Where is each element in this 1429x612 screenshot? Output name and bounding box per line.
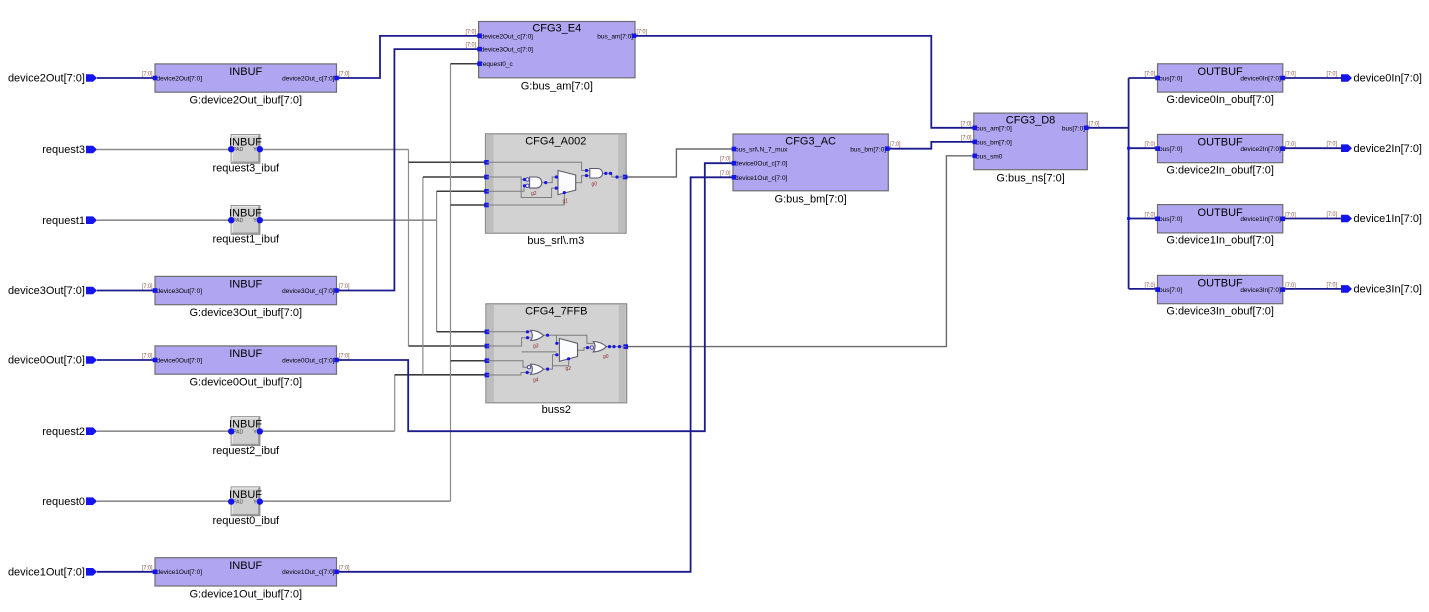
svg-text:request1_ibuf: request1_ibuf [212,234,280,246]
svg-text:device3Out_c[7:0]: device3Out_c[7:0] [282,288,335,295]
svg-text:[7:0]: [7:0] [1327,281,1338,288]
svg-text:INBUF: INBUF [229,348,262,360]
svg-text:device3In[7:0]: device3In[7:0] [1354,284,1423,296]
svg-text:device1Out_c[7:0]: device1Out_c[7:0] [282,569,335,576]
svg-text:device1In[7:0]: device1In[7:0] [1240,216,1281,223]
svg-text:[7:0]: [7:0] [1089,120,1100,127]
svg-text:device0Out_c[7:0]: device0Out_c[7:0] [282,357,335,364]
svg-text:CFG4_7FFB: CFG4_7FFB [525,305,587,317]
svg-text:[7:0]: [7:0] [1327,211,1338,218]
svg-text:[7:0]: [7:0] [1145,71,1156,78]
svg-text:G:device3Out_ibuf[7:0]: G:device3Out_ibuf[7:0] [189,307,302,319]
svg-text:G:device1Out_ibuf[7:0]: G:device1Out_ibuf[7:0] [189,588,302,600]
svg-text:buss2: buss2 [542,404,571,416]
svg-text:device2In[7:0]: device2In[7:0] [1240,146,1281,153]
svg-text:[7:0]: [7:0] [1145,282,1156,289]
svg-text:PAD: PAD [233,218,243,224]
svg-text:g2: g2 [531,191,537,197]
svg-text:[7:0]: [7:0] [1145,141,1156,148]
svg-text:[7:0]: [7:0] [142,71,153,78]
svg-text:device3In[7:0]: device3In[7:0] [1240,287,1281,294]
svg-text:[7:0]: [7:0] [142,283,153,290]
svg-text:Y: Y [253,429,257,435]
svg-text:[7:0]: [7:0] [720,156,731,163]
svg-text:request2: request2 [42,426,85,438]
svg-text:G:device0Out_ibuf[7:0]: G:device0Out_ibuf[7:0] [189,377,302,389]
svg-text:bus_srl\.m3: bus_srl\.m3 [527,235,584,247]
svg-text:[7:0]: [7:0] [466,42,477,49]
svg-text:[7:0]: [7:0] [142,353,153,360]
svg-text:device1Out[7:0]: device1Out[7:0] [157,569,203,576]
svg-text:Y: Y [253,500,257,506]
svg-text:bus_am[7:0]: bus_am[7:0] [976,125,1012,132]
svg-text:OUTBUF: OUTBUF [1198,207,1244,219]
svg-text:request3: request3 [42,144,85,156]
svg-text:G:bus_ns[7:0]: G:bus_ns[7:0] [996,173,1065,185]
svg-text:[7:0]: [7:0] [1327,141,1338,148]
svg-text:g0: g0 [603,354,609,360]
svg-text:device1In[7:0]: device1In[7:0] [1354,213,1423,225]
svg-text:device1Out_c[7:0]: device1Out_c[7:0] [735,175,788,182]
svg-text:[7:0]: [7:0] [339,71,350,78]
svg-text:bus_sm0: bus_sm0 [976,153,1003,160]
svg-text:bus_srl\.N_7_mux: bus_srl\.N_7_mux [735,147,788,154]
svg-text:device2Out_c[7:0]: device2Out_c[7:0] [481,33,534,40]
svg-text:G:bus_bm[7:0]: G:bus_bm[7:0] [775,194,847,206]
svg-text:CFG3_AC: CFG3_AC [785,136,836,148]
svg-text:[7:0]: [7:0] [1285,141,1296,148]
svg-text:G:device2In_obuf[7:0]: G:device2In_obuf[7:0] [1166,164,1274,176]
svg-text:G:bus_am[7:0]: G:bus_am[7:0] [521,80,593,92]
svg-text:request2_ibuf: request2_ibuf [212,445,280,457]
svg-text:G:device2Out_ibuf[7:0]: G:device2Out_ibuf[7:0] [189,95,302,107]
svg-text:[7:0]: [7:0] [339,283,350,290]
svg-text:OUTBUF: OUTBUF [1198,278,1244,290]
svg-text:bus[7:0]: bus[7:0] [1159,287,1182,294]
svg-text:CFG3_D8: CFG3_D8 [1006,115,1056,127]
svg-text:g2: g2 [566,366,572,372]
svg-text:CFG3_E4: CFG3_E4 [532,23,581,35]
svg-text:device0Out[7:0]: device0Out[7:0] [8,355,85,367]
svg-text:bus_bm[7:0]: bus_bm[7:0] [976,139,1012,146]
svg-text:G:device0In_obuf[7:0]: G:device0In_obuf[7:0] [1166,94,1274,106]
svg-text:[7:0]: [7:0] [1285,71,1296,78]
svg-text:[7:0]: [7:0] [466,28,477,35]
svg-text:bus[7:0]: bus[7:0] [1159,146,1182,153]
svg-text:device0Out_c[7:0]: device0Out_c[7:0] [735,161,788,168]
svg-text:G:device1In_obuf[7:0]: G:device1In_obuf[7:0] [1166,235,1274,247]
svg-text:device2Out[7:0]: device2Out[7:0] [8,73,85,85]
svg-text:[7:0]: [7:0] [1145,211,1156,218]
svg-text:request0_c: request0_c [481,61,514,68]
svg-text:Y: Y [253,147,257,153]
svg-text:device3Out[7:0]: device3Out[7:0] [157,288,203,295]
svg-text:INBUF: INBUF [229,560,262,572]
svg-text:device2Out[7:0]: device2Out[7:0] [157,75,203,82]
svg-text:g4: g4 [533,378,539,384]
svg-text:bus[7:0]: bus[7:0] [1159,216,1182,223]
svg-text:device2In[7:0]: device2In[7:0] [1354,143,1423,155]
svg-text:[7:0]: [7:0] [961,120,972,127]
svg-text:request0: request0 [42,496,85,508]
svg-text:PAD: PAD [233,500,243,506]
svg-text:G:device3In_obuf[7:0]: G:device3In_obuf[7:0] [1166,305,1274,317]
svg-text:[7:0]: [7:0] [890,141,901,148]
svg-text:bus[7:0]: bus[7:0] [1062,125,1085,132]
svg-text:OUTBUF: OUTBUF [1198,137,1244,149]
svg-text:device2Out_c[7:0]: device2Out_c[7:0] [282,75,335,82]
svg-text:PAD: PAD [233,429,243,435]
svg-text:[7:0]: [7:0] [637,28,648,35]
svg-text:device0Out[7:0]: device0Out[7:0] [157,357,203,364]
svg-text:PAD: PAD [233,147,243,153]
svg-text:bus_bm[7:0]: bus_bm[7:0] [850,147,886,154]
svg-text:CFG4_A002: CFG4_A002 [525,135,586,147]
svg-text:device0In[7:0]: device0In[7:0] [1240,75,1281,82]
svg-text:request1: request1 [42,215,85,227]
svg-text:device0In[7:0]: device0In[7:0] [1354,73,1423,85]
svg-text:request0_ibuf: request0_ibuf [212,515,280,527]
svg-text:INBUF: INBUF [229,279,262,291]
svg-text:OUTBUF: OUTBUF [1198,66,1244,78]
svg-text:request3_ibuf: request3_ibuf [212,163,280,175]
svg-text:bus_am[7:0]: bus_am[7:0] [597,33,633,40]
svg-text:g1: g1 [563,198,569,204]
svg-text:Y: Y [253,218,257,224]
svg-text:[7:0]: [7:0] [961,134,972,141]
svg-text:INBUF: INBUF [229,66,262,78]
svg-text:g3: g3 [533,344,539,350]
svg-text:[7:0]: [7:0] [1285,282,1296,289]
svg-text:[7:0]: [7:0] [142,564,153,571]
svg-text:device3Out[7:0]: device3Out[7:0] [8,285,85,297]
svg-text:[7:0]: [7:0] [339,353,350,360]
svg-text:bus[7:0]: bus[7:0] [1159,75,1182,82]
svg-text:g0: g0 [592,181,598,187]
svg-text:[7:0]: [7:0] [720,170,731,177]
svg-text:device1Out[7:0]: device1Out[7:0] [8,567,85,579]
svg-text:[7:0]: [7:0] [1285,211,1296,218]
svg-text:[7:0]: [7:0] [1327,71,1338,78]
svg-text:device3Out_c[7:0]: device3Out_c[7:0] [481,47,534,54]
svg-text:[7:0]: [7:0] [339,564,350,571]
